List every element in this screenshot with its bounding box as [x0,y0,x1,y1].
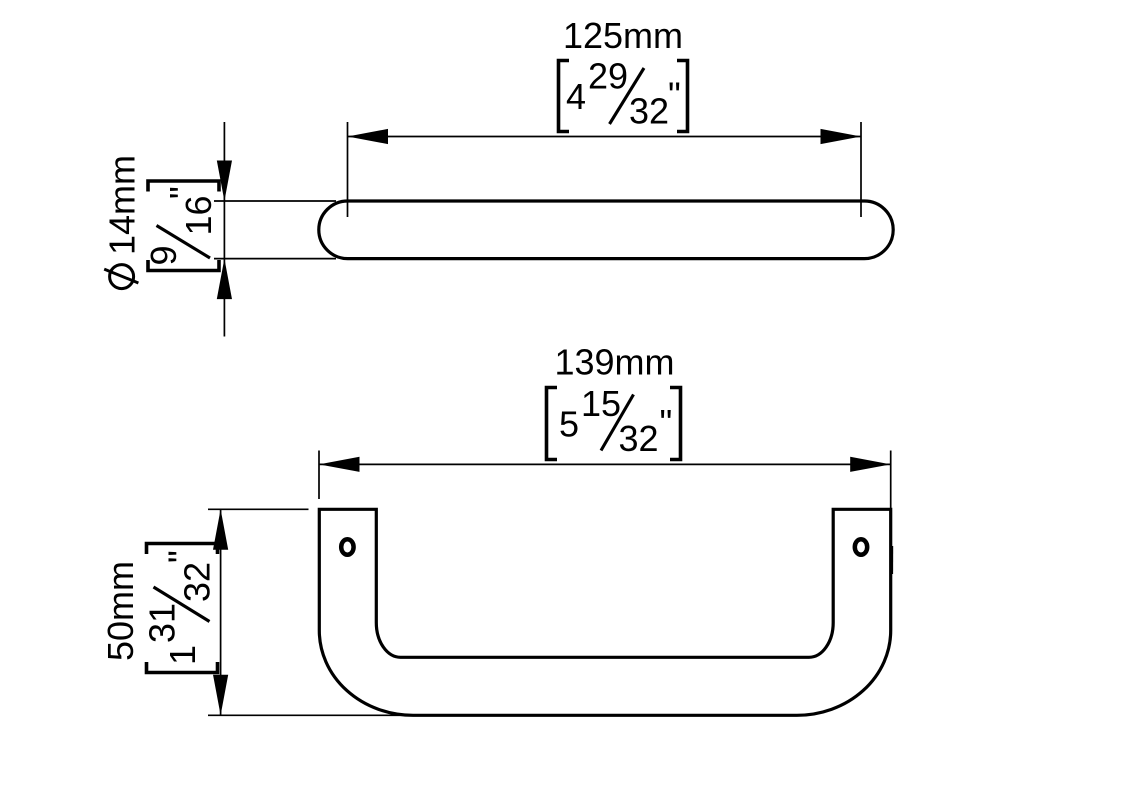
svg-text:125mm: 125mm [563,15,683,56]
svg-text:139mm: 139mm [554,342,674,383]
svg-text:1: 1 [162,645,203,665]
svg-text:50mm: 50mm [100,561,141,661]
svg-text:9: 9 [143,245,184,265]
svg-text:14mm: 14mm [102,155,143,255]
svg-text:16: 16 [178,195,219,235]
svg-text:": " [162,186,203,199]
svg-text:32: 32 [177,562,218,602]
svg-text:": " [161,550,202,563]
svg-text:29: 29 [588,56,628,97]
svg-text:": " [660,402,673,443]
svg-text:31: 31 [142,603,183,643]
svg-text:5: 5 [559,404,579,445]
svg-text:": " [668,75,681,116]
svg-text:32: 32 [619,418,659,459]
svg-text:4: 4 [566,76,586,117]
svg-text:32: 32 [629,91,669,132]
svg-text:15: 15 [581,383,621,424]
